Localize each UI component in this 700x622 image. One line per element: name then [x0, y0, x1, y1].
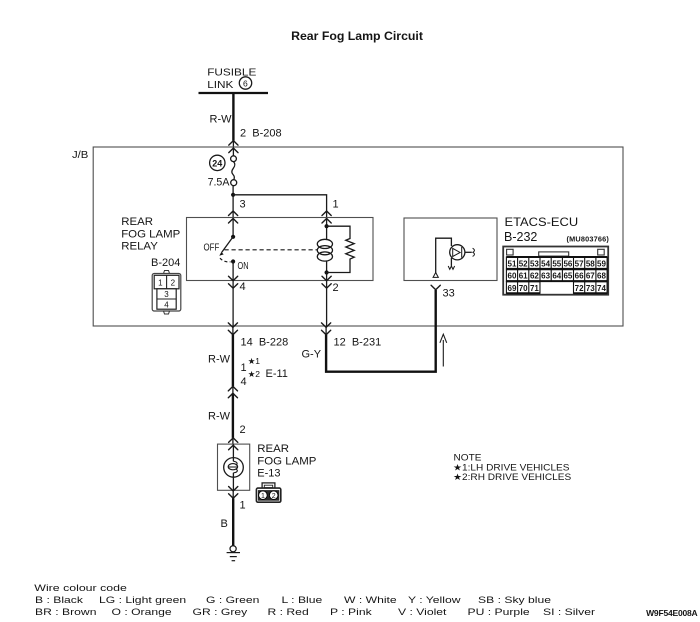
- svg-text:14 B-228: 14 B-228: [241, 337, 289, 349]
- relay coil parallel resistor: [327, 226, 355, 272]
- J/B box: [93, 147, 623, 326]
- svg-text:1: 1: [261, 493, 265, 500]
- svg-text:(MU803766): (MU803766): [567, 235, 610, 244]
- svg-text:1: 1: [158, 278, 163, 287]
- svg-text:56: 56: [563, 259, 572, 268]
- svg-text:2 B-208: 2 B-208: [240, 128, 282, 140]
- svg-text:53: 53: [530, 259, 539, 268]
- svg-text:O : Orange: O : Orange: [112, 607, 172, 617]
- svg-text:★2: ★2: [248, 369, 261, 379]
- label pin 4 star2 E-11: [241, 368, 288, 388]
- svg-text:SB : Sky blue: SB : Sky blue: [478, 595, 551, 605]
- svg-text:60: 60: [508, 272, 517, 281]
- chevrons pin 1 at relay border: [322, 211, 331, 223]
- svg-text:FOG LAMP: FOG LAMP: [257, 456, 316, 468]
- wire R-W from fusible link to J/B: [232, 93, 234, 141]
- svg-text:2: 2: [171, 278, 176, 287]
- svg-text:Wire colour code: Wire colour code: [34, 583, 127, 593]
- svg-text:REAR: REAR: [257, 444, 289, 456]
- svg-text:54: 54: [541, 259, 550, 268]
- connector B-232 pin cells: [506, 257, 607, 293]
- ON contact node: [231, 259, 235, 263]
- svg-text:74: 74: [597, 284, 606, 293]
- svg-text:55: 55: [552, 259, 561, 268]
- svg-text:2: 2: [333, 282, 339, 294]
- connector B-232 pin grid: [503, 247, 608, 295]
- connector chevrons B-208 at J/B border: [229, 141, 238, 153]
- chevrons lamp top: [229, 438, 238, 450]
- connector B-204 icon: [152, 271, 181, 315]
- svg-text:GR : Grey: GR : Grey: [193, 607, 248, 617]
- svg-text:66: 66: [575, 272, 584, 281]
- ETACS-ECU internal wiring: [436, 238, 452, 273]
- wire G-Y from pin 12 to ECU pin 33: [325, 326, 327, 335]
- relay coil: [317, 218, 332, 275]
- chevrons 14 B-228 below J/B: [228, 323, 237, 335]
- svg-text:R-W: R-W: [210, 114, 233, 126]
- svg-text:B-204: B-204: [151, 257, 180, 269]
- ground: [227, 546, 240, 561]
- svg-text:B : Black: B : Black: [35, 595, 84, 605]
- wire colour code legend: [34, 583, 595, 618]
- wire from ON contact to pin 4: [232, 262, 234, 281]
- svg-text:R-W: R-W: [208, 411, 231, 423]
- svg-text:PU : Purple: PU : Purple: [468, 607, 530, 617]
- svg-text:73: 73: [586, 284, 595, 293]
- wire pin 4 to J/B border: [232, 281, 234, 327]
- label REAR FOG LAMP RELAY: [121, 216, 180, 252]
- svg-text:51: 51: [508, 259, 517, 268]
- svg-text:68: 68: [597, 272, 606, 281]
- chevrons pin 2 below relay: [322, 276, 331, 288]
- rear fog lamp box E-13: [218, 444, 250, 490]
- lamp bulb: [224, 444, 244, 490]
- svg-text:63: 63: [541, 272, 550, 281]
- ETACS-ECU box: [404, 218, 497, 281]
- svg-text:L : Blue: L : Blue: [282, 595, 323, 605]
- svg-text:67: 67: [586, 272, 595, 281]
- svg-text:LINK: LINK: [207, 80, 234, 91]
- svg-text:4: 4: [164, 300, 169, 309]
- svg-text:V : Violet: V : Violet: [398, 607, 446, 617]
- chevrons connector E-11: [228, 386, 237, 397]
- label pin 1 star1: [241, 356, 261, 374]
- svg-text:57: 57: [575, 259, 584, 268]
- svg-text:FUSIBLE: FUSIBLE: [207, 67, 256, 78]
- svg-text:G-Y: G-Y: [302, 349, 322, 361]
- connector E-13 icon: [256, 483, 280, 502]
- wire branch to coil side: [233, 195, 327, 218]
- wire from fuse to junction: [232, 186, 234, 218]
- svg-text:61: 61: [519, 272, 528, 281]
- svg-text:64: 64: [552, 272, 561, 281]
- svg-text:1: 1: [333, 199, 339, 211]
- switch dashed link to coil: [225, 249, 319, 251]
- svg-text:RELAY: RELAY: [121, 241, 158, 253]
- fuse 7.5A (24): [231, 147, 237, 185]
- fusible link bus bar: [199, 92, 269, 94]
- transistor ground arrow inside ECU: [448, 258, 454, 269]
- svg-text:3: 3: [164, 290, 169, 299]
- relay switch: [219, 218, 235, 256]
- svg-text:B-232: B-232: [504, 230, 537, 244]
- label REAR FOG LAMP E-13: [257, 444, 316, 480]
- svg-text:R-W: R-W: [208, 354, 231, 366]
- svg-text:J/B: J/B: [72, 149, 88, 160]
- svg-text:1: 1: [240, 500, 246, 512]
- chevrons pin 4 below relay: [229, 276, 238, 288]
- svg-text:52: 52: [519, 259, 528, 268]
- wire R-W pin 14 down to rear fog lamp: [232, 326, 234, 335]
- svg-text:70: 70: [519, 284, 528, 293]
- svg-text:P : Pink: P : Pink: [330, 607, 372, 617]
- transistor output lead with continuation squiggle: [465, 248, 475, 256]
- chevron pin 33 below ECU: [431, 285, 440, 290]
- svg-text:33: 33: [443, 288, 455, 300]
- svg-text:LG : Light green: LG : Light green: [99, 595, 186, 605]
- chevrons pin 3 at relay border: [229, 211, 238, 223]
- svg-text:6: 6: [243, 78, 248, 88]
- svg-text:72: 72: [575, 284, 584, 293]
- svg-text:OFF: OFF: [204, 242, 220, 254]
- svg-text:G : Green: G : Green: [206, 595, 259, 605]
- internal pin triangle at pin 33: [433, 273, 438, 278]
- svg-text:3: 3: [240, 199, 246, 211]
- svg-text:2: 2: [272, 493, 276, 500]
- fuse number circle 24: [210, 155, 225, 170]
- svg-text:59: 59: [597, 259, 606, 268]
- wire B to ground: [232, 490, 234, 498]
- current direction arrow: [440, 334, 447, 366]
- wire coil to pin 2: [326, 273, 328, 281]
- svg-text:BR : Brown: BR : Brown: [35, 607, 96, 617]
- svg-text:B: B: [221, 518, 228, 530]
- svg-text:SI : Silver: SI : Silver: [543, 607, 595, 617]
- svg-text:71: 71: [530, 284, 539, 293]
- wire pin 2 to J/B border: [326, 281, 328, 327]
- svg-text:62: 62: [530, 272, 539, 281]
- svg-text:W9F54E008A: W9F54E008A: [646, 608, 697, 618]
- svg-text:ON: ON: [238, 260, 249, 272]
- relay box: [187, 218, 374, 281]
- svg-text:★2:RH DRIVE VEHICLES: ★2:RH DRIVE VEHICLES: [453, 472, 571, 482]
- svg-text:E-11: E-11: [266, 368, 288, 380]
- junction node: [231, 193, 235, 197]
- switch dashed travel arc: [220, 258, 231, 262]
- fusible link number circle 6: [239, 77, 251, 89]
- svg-text:69: 69: [508, 284, 517, 293]
- svg-text:65: 65: [563, 272, 572, 281]
- svg-text:4: 4: [240, 281, 246, 293]
- transistor driver U1: [450, 245, 465, 260]
- svg-text:R : Red: R : Red: [268, 607, 309, 617]
- svg-text:12 B-231: 12 B-231: [334, 337, 382, 349]
- svg-text:E-13: E-13: [257, 468, 280, 480]
- svg-text:Rear Fog Lamp Circuit: Rear Fog Lamp Circuit: [291, 29, 423, 43]
- svg-text:24: 24: [212, 158, 222, 168]
- svg-text:REAR: REAR: [121, 216, 153, 228]
- svg-text:1: 1: [241, 362, 247, 374]
- svg-text:58: 58: [586, 259, 595, 268]
- svg-text:4: 4: [241, 376, 247, 388]
- svg-text:FOG LAMP: FOG LAMP: [121, 229, 180, 241]
- svg-text:2: 2: [240, 424, 246, 436]
- svg-text:7.5A: 7.5A: [208, 177, 231, 189]
- chevrons 12 B-231 below J/B: [322, 323, 331, 335]
- svg-text:ETACS-ECU: ETACS-ECU: [505, 215, 579, 229]
- chevrons lamp bottom: [229, 487, 238, 499]
- svg-text:W : White: W : White: [344, 595, 397, 605]
- svg-text:Y : Yellow: Y : Yellow: [408, 595, 461, 605]
- svg-text:★1: ★1: [248, 356, 261, 366]
- note block: [453, 453, 571, 483]
